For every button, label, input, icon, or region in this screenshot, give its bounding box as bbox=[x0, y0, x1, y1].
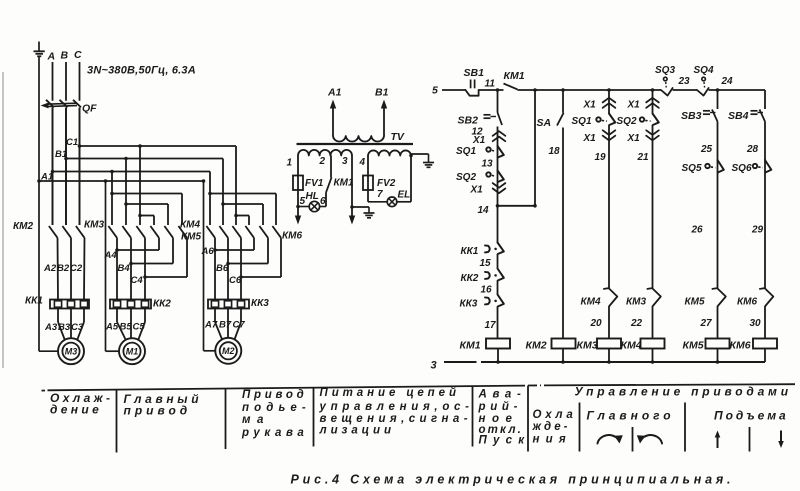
svg-text:SB2: SB2 bbox=[458, 115, 479, 127]
svg-text:26: 26 bbox=[691, 225, 704, 236]
svg-text:15: 15 bbox=[480, 258, 492, 269]
svg-text:Привод: Привод bbox=[242, 389, 308, 401]
svg-text:SA: SA bbox=[537, 117, 552, 129]
svg-text:11: 11 bbox=[485, 79, 496, 90]
svg-text:SQ2: SQ2 bbox=[617, 116, 637, 127]
svg-text:КМ5: КМ5 bbox=[181, 232, 201, 243]
svg-text:лизации: лизации bbox=[319, 425, 395, 437]
svg-text:21: 21 bbox=[637, 152, 650, 163]
svg-text:23: 23 bbox=[678, 76, 691, 87]
svg-text:22: 22 bbox=[630, 318, 643, 329]
svg-text:28: 28 bbox=[746, 144, 759, 155]
svg-text:дение: дение bbox=[50, 403, 102, 417]
svg-text:2: 2 bbox=[319, 156, 326, 167]
svg-text:М3: М3 bbox=[65, 347, 78, 357]
svg-text:КМ1: КМ1 bbox=[334, 178, 354, 189]
svg-text:FV1: FV1 bbox=[305, 178, 324, 189]
svg-text:Охла: Охла bbox=[533, 409, 577, 421]
svg-text:Ава-: Ава- bbox=[478, 389, 527, 401]
svg-text:29: 29 bbox=[751, 225, 764, 236]
svg-text:Главного: Главного bbox=[587, 409, 675, 423]
svg-text:КК3: КК3 bbox=[251, 298, 269, 309]
svg-text:КМ3: КМ3 bbox=[84, 220, 104, 231]
svg-text:TV: TV bbox=[391, 131, 405, 143]
svg-text:С4: С4 bbox=[131, 275, 144, 286]
svg-text:КМ6: КМ6 bbox=[730, 340, 751, 352]
svg-text:Питание цепей: Питание цепей bbox=[320, 387, 460, 399]
svg-text:FV2: FV2 bbox=[377, 178, 396, 189]
svg-text:14: 14 bbox=[478, 205, 490, 216]
svg-text:17: 17 bbox=[485, 320, 497, 331]
svg-text:Пуск: Пуск bbox=[479, 435, 531, 447]
svg-text:SQ4: SQ4 bbox=[694, 65, 714, 76]
svg-text:В7: В7 bbox=[219, 320, 232, 331]
svg-text:24: 24 bbox=[721, 76, 734, 87]
svg-text:КМ5: КМ5 bbox=[685, 297, 705, 308]
svg-text:КК3: КК3 bbox=[460, 299, 478, 310]
svg-text:жде-: жде- bbox=[532, 421, 571, 433]
svg-text:3: 3 bbox=[342, 156, 348, 167]
svg-text:А1: А1 bbox=[40, 172, 53, 183]
svg-text:КМ5: КМ5 bbox=[683, 340, 704, 352]
svg-text:SQ5: SQ5 bbox=[682, 163, 702, 174]
svg-text:М1: М1 bbox=[126, 347, 139, 357]
svg-text:КМ4: КМ4 bbox=[621, 340, 642, 352]
svg-text:3N~380В,50Гц, 6.3А: 3N~380В,50Гц, 6.3А bbox=[87, 65, 196, 77]
svg-text:EL: EL bbox=[398, 190, 411, 201]
svg-text:А3: А3 bbox=[44, 322, 58, 333]
svg-text:КМ6: КМ6 bbox=[737, 297, 757, 308]
svg-text:подье-: подье- bbox=[242, 402, 311, 414]
svg-text:КМ4: КМ4 bbox=[581, 297, 601, 308]
svg-text:КМ4: КМ4 bbox=[180, 220, 200, 231]
svg-text:КК1: КК1 bbox=[25, 296, 43, 307]
svg-text:вещения,сигна-: вещения,сигна- bbox=[320, 413, 472, 425]
svg-text:X1: X1 bbox=[470, 185, 484, 196]
svg-text:В2: В2 bbox=[57, 263, 70, 274]
svg-text:X1: X1 bbox=[583, 133, 597, 144]
svg-text:рий-: рий- bbox=[478, 401, 523, 413]
svg-text:рукава: рукава bbox=[241, 427, 308, 439]
svg-text:7: 7 bbox=[377, 189, 383, 200]
svg-text:М2: М2 bbox=[222, 346, 235, 356]
svg-text:КМ3: КМ3 bbox=[577, 340, 598, 352]
svg-text:Рис.4 Схема электрическая прин: Рис.4 Схема электрическая принципиальная… bbox=[291, 473, 735, 487]
svg-text:C: C bbox=[74, 49, 82, 61]
svg-text:SQ3: SQ3 bbox=[655, 65, 675, 76]
svg-text:3: 3 bbox=[431, 360, 437, 372]
svg-text:КМ2: КМ2 bbox=[526, 340, 547, 352]
svg-text:ния: ния bbox=[533, 434, 572, 446]
svg-text:HL: HL bbox=[306, 191, 319, 202]
svg-text:X1: X1 bbox=[627, 133, 641, 144]
svg-text:В1: В1 bbox=[375, 87, 389, 99]
svg-text:привод: привод bbox=[124, 404, 192, 418]
svg-text:КМ6: КМ6 bbox=[282, 231, 302, 242]
svg-text:SQ1: SQ1 bbox=[456, 146, 476, 157]
svg-text:25: 25 bbox=[700, 144, 713, 155]
svg-text:управления,ос-: управления,ос- bbox=[319, 401, 474, 413]
svg-text:B: B bbox=[61, 50, 69, 62]
svg-text:С1: С1 bbox=[66, 137, 78, 148]
svg-text:30: 30 bbox=[750, 318, 762, 329]
svg-text:SB3: SB3 bbox=[681, 110, 702, 122]
svg-text:X1: X1 bbox=[583, 100, 597, 111]
svg-text:В4: В4 bbox=[118, 263, 131, 274]
svg-text:КМ2: КМ2 bbox=[13, 221, 33, 232]
svg-text:А2: А2 bbox=[43, 263, 57, 274]
svg-text:SQ2: SQ2 bbox=[456, 172, 476, 183]
svg-text:КК2: КК2 bbox=[461, 273, 479, 284]
svg-text:КК2: КК2 bbox=[153, 299, 171, 310]
svg-text:КМ3: КМ3 bbox=[626, 297, 646, 308]
svg-text:SB4: SB4 bbox=[728, 110, 749, 122]
svg-text:18: 18 bbox=[549, 146, 561, 157]
svg-text:X1: X1 bbox=[472, 135, 486, 146]
svg-text:X1: X1 bbox=[627, 100, 641, 111]
svg-text:А1: А1 bbox=[327, 87, 342, 99]
svg-text:КК1: КК1 bbox=[461, 246, 479, 257]
svg-text:A: A bbox=[47, 51, 56, 63]
svg-text:QF: QF bbox=[82, 103, 97, 115]
svg-text:ма: ма bbox=[242, 414, 270, 426]
svg-text:SB1: SB1 bbox=[464, 67, 485, 79]
svg-text:С2: С2 bbox=[70, 263, 83, 274]
svg-text:SQ6: SQ6 bbox=[732, 163, 752, 174]
svg-text:1: 1 bbox=[287, 158, 293, 169]
svg-text:Управление приводами: Управление приводами bbox=[575, 385, 792, 399]
svg-text:КМ1: КМ1 bbox=[504, 70, 525, 82]
svg-text:КМ1: КМ1 bbox=[460, 340, 481, 352]
svg-text:А6: А6 bbox=[201, 246, 215, 257]
svg-text:13: 13 bbox=[482, 159, 494, 170]
svg-text:20: 20 bbox=[590, 318, 603, 329]
svg-text:19: 19 bbox=[595, 152, 607, 163]
svg-text:А4: А4 bbox=[104, 250, 118, 261]
svg-text:5: 5 bbox=[432, 85, 438, 97]
svg-text:Подъема: Подъема bbox=[714, 409, 789, 423]
svg-text:27: 27 bbox=[700, 318, 713, 329]
svg-text:SQ1: SQ1 bbox=[572, 116, 592, 127]
svg-text:16: 16 bbox=[481, 285, 493, 296]
svg-text:4: 4 bbox=[359, 157, 366, 168]
